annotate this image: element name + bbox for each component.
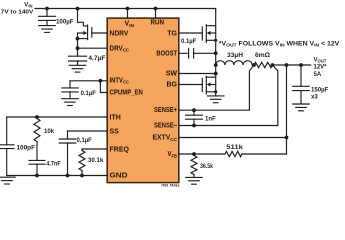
svg-text:0.1µF: 0.1µF [81, 90, 97, 97]
node sense resistor left junction [252, 63, 256, 67]
svg-text:SS: SS [110, 128, 120, 135]
node IC top pin labels VIN RUN [125, 20, 165, 29]
wire CPUMP_EN tie [100, 81, 107, 93]
svg-text:5A: 5A [314, 72, 322, 78]
svg-text:511k: 511k [226, 144, 243, 151]
node VOUT output labels [314, 57, 328, 78]
capacitor C9 1nF sense filter [186, 110, 217, 125]
svg-text:150µF: 150µF [311, 87, 329, 94]
wire RUN pin tick [155, 9, 157, 19]
wire BG gate lead [179, 84, 203, 86]
wire TG gate lead [179, 32, 203, 34]
node VIN pin junction [126, 7, 130, 11]
svg-text:1nF: 1nF [205, 116, 216, 123]
resistor R3 6mOhm sense [254, 52, 272, 68]
wire SENSE- kelvin [179, 65, 278, 126]
node VIN/100uF junction [45, 7, 49, 11]
node RUN pin junction [154, 7, 158, 11]
node datasheet figure number [161, 184, 180, 188]
svg-text:VOUT: VOUT [314, 57, 327, 63]
node SW pin junction [214, 72, 218, 76]
wire FREQ [82, 148, 107, 150]
wire SW [179, 73, 216, 75]
svg-text:SENSE–: SENSE– [154, 122, 177, 129]
wire VIN top rail [35, 8, 216, 10]
ground for C8 [293, 104, 310, 111]
resistor R4 511k [225, 144, 243, 157]
capacitor C2 4.7uF DRVCC [69, 55, 106, 62]
node SW/inductor junction [214, 63, 218, 67]
svg-text:RUN: RUN [151, 20, 165, 27]
svg-text:4.7µF: 4.7µF [88, 55, 105, 62]
wire SS [68, 130, 108, 132]
node divider/EXTVCC tap [285, 63, 289, 67]
node sense resistor right junction [271, 63, 275, 67]
ground for C3 [62, 99, 79, 106]
wire VOUT rail [272, 64, 310, 66]
svg-text:100pF: 100pF [17, 144, 36, 151]
node 1nF bottom junction [192, 124, 196, 128]
svg-text:12V*: 12V* [314, 65, 328, 71]
svg-text:7V to 140V: 7V to 140V [1, 9, 34, 15]
svg-text:TG: TG [167, 30, 177, 37]
svg-text:SENSE+: SENSE+ [154, 107, 177, 114]
wire VFB [179, 153, 225, 155]
svg-text:NDRV: NDRV [110, 30, 129, 37]
svg-text:ITH: ITH [110, 114, 121, 121]
node IC left pin labels [110, 30, 143, 179]
ground for C1 [39, 26, 56, 33]
svg-text:SW: SW [166, 71, 178, 78]
svg-text:4.7nF: 4.7nF [46, 161, 61, 168]
wire BOOST lead [179, 52, 189, 54]
wire EXTVCC to VOUT [179, 137, 287, 139]
resistor R1 10k [34, 119, 55, 142]
ground for C2 [69, 61, 86, 72]
node BOOST/SW-vertical junction [214, 51, 218, 55]
node SS-cap/GND junction [66, 174, 70, 178]
wire INTVCC [70, 80, 107, 82]
node 30.1k/GND junction [80, 174, 84, 178]
capacitor C5 4.7nF [29, 142, 61, 176]
node EXTVCC junction [285, 136, 289, 140]
op-amp/controller IC U1 (LTC7801) body [107, 18, 179, 183]
capacitor C7 0.1uF BOOST [181, 38, 197, 58]
wire SENSE+ kelvin [179, 65, 254, 110]
ground for 36.5k [186, 177, 203, 184]
node ITH/10k junction [35, 115, 39, 119]
node 1nF top junction [192, 108, 196, 112]
capacitor C3 0.1uF INTVCC [62, 81, 96, 99]
svg-text:36.5k: 36.5k [200, 163, 214, 170]
resistor R5 36.5k [191, 154, 214, 177]
svg-text:7801 TA01a: 7801 TA01a [161, 184, 180, 188]
resistor R2 30.1k FREQ [79, 149, 104, 176]
node VFB/36.5k junction [192, 152, 196, 156]
svg-text:30.1k: 30.1k [88, 157, 104, 164]
ground main [0, 177, 15, 184]
node output cap tap [299, 63, 303, 67]
wire NDRV gate lead [92, 32, 107, 34]
node asterisk note [219, 40, 341, 47]
svg-text:0.1µF: 0.1µF [77, 137, 93, 144]
wire DRVCC [78, 47, 108, 49]
transistor Q1 NDRV pass NMOS [76, 9, 92, 56]
node VIN/NDRV-FET junction [76, 7, 80, 11]
svg-text:BOOST: BOOST [156, 51, 177, 58]
wire GND bus [7, 175, 108, 177]
node 4.7nF/GND junction [35, 174, 39, 178]
svg-text:33µH: 33µH [227, 52, 243, 59]
capacitor C6 0.1uF SS [59, 131, 92, 176]
ground for Q3 source [207, 96, 224, 103]
wire coil to sense resistor [252, 64, 254, 66]
svg-text:CPUMP_EN: CPUMP_EN [110, 90, 143, 97]
svg-text:GND: GND [110, 172, 128, 179]
wire ITH [7, 116, 108, 118]
transistor Q2 top NMOS [202, 9, 217, 66]
svg-text:BG: BG [167, 82, 178, 89]
node VIN input label [1, 2, 34, 15]
wire BOOST to SW node [194, 52, 216, 54]
wire 511k to divider vertical [242, 153, 287, 155]
svg-text:VIN: VIN [24, 2, 32, 8]
svg-text:x3: x3 [311, 94, 318, 101]
wire VIN pin tick [127, 9, 129, 19]
svg-text:0.1µF: 0.1µF [181, 38, 197, 45]
inductor L1 33uH [216, 52, 253, 65]
wire VOUT divider vertical [286, 65, 288, 154]
svg-text:6mΩ: 6mΩ [255, 52, 270, 59]
transistor Q3 bottom NMOS [202, 65, 217, 96]
svg-text:FREQ: FREQ [110, 146, 130, 153]
capacitor C8 150uF x3 output [293, 65, 329, 104]
svg-text:100µF: 100µF [56, 19, 74, 26]
capacitor C4 100pF ITH [0, 117, 35, 176]
capacitor C1 100uF input [39, 9, 74, 26]
node INTVCC/CPUMP junction [99, 79, 103, 83]
svg-text:*VOUT FOLLOWS VIN WHEN VIN < 1: *VOUT FOLLOWS VIN WHEN VIN < 12V [219, 40, 341, 47]
node IC right pin labels [152, 30, 177, 159]
svg-text:10k: 10k [44, 128, 55, 135]
